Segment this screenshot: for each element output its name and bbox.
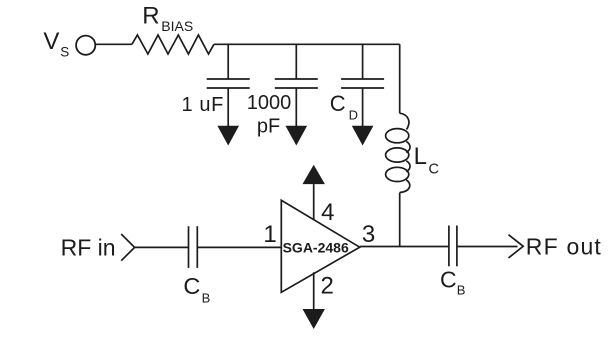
- svg-text:L: L: [414, 143, 427, 170]
- svg-text:S: S: [60, 44, 69, 59]
- svg-text:1000: 1000: [247, 92, 291, 114]
- svg-text:V: V: [43, 28, 59, 55]
- svg-text:C: C: [183, 273, 200, 299]
- svg-text:RF in: RF in: [61, 234, 116, 260]
- svg-text:1 uF: 1 uF: [182, 94, 224, 116]
- svg-text:pF: pF: [257, 116, 280, 138]
- svg-text:3: 3: [362, 221, 375, 248]
- svg-text:4: 4: [321, 199, 334, 226]
- svg-text:RF out: RF out: [526, 233, 602, 259]
- svg-text:R: R: [142, 3, 159, 30]
- svg-text:BIAS: BIAS: [161, 18, 193, 34]
- svg-text:D: D: [349, 108, 358, 123]
- svg-text:1: 1: [263, 221, 276, 248]
- svg-text:C: C: [330, 91, 346, 116]
- svg-text:C: C: [429, 161, 439, 177]
- svg-text:B: B: [457, 282, 466, 297]
- svg-text:2: 2: [321, 272, 334, 299]
- svg-text:SGA-2486: SGA-2486: [283, 240, 349, 256]
- svg-text:C: C: [440, 266, 457, 292]
- svg-text:B: B: [202, 290, 211, 305]
